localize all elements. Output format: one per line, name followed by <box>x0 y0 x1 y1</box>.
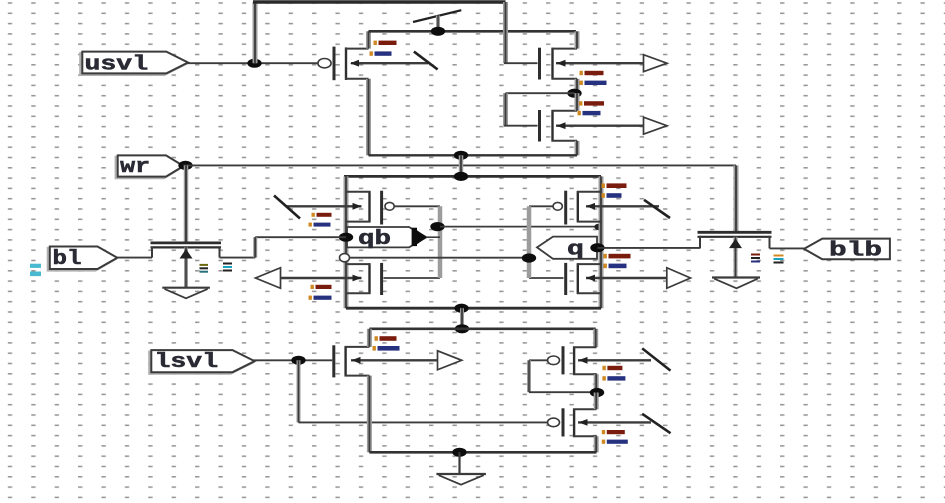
wire rail y176 top of latch <box>344 175 601 178</box>
wire M8 source arm down to rail <box>367 376 372 453</box>
annotation slash at M4 bulk <box>274 196 300 219</box>
svg-text:q: q <box>567 239 584 262</box>
node junction rail y176 <box>454 172 468 181</box>
wire rail y452 bottom of lower block <box>369 451 596 454</box>
ground symbol below MA1 <box>162 288 210 299</box>
value label M10 line2 <box>602 440 628 444</box>
wire wr down to left access gate <box>184 165 189 242</box>
value label M1 line2 <box>370 51 392 55</box>
flag bl bitline pin <box>48 248 116 271</box>
bulk of M5 with arrow and well tap triangle <box>256 268 362 289</box>
value label M10 line1 <box>602 430 625 434</box>
value label M9 line1 <box>602 366 622 370</box>
value label M5 line1 <box>311 285 332 289</box>
wire wr horizontal run <box>184 164 737 166</box>
annotation slash at M1 bulk <box>414 52 438 70</box>
wire M3 drain arm up <box>575 93 580 111</box>
wire mid node to M3 gate column <box>506 92 575 94</box>
wire rail y155 bottom of top block <box>369 154 578 156</box>
value label M3 line2 <box>578 111 601 115</box>
bulk of M7 with arrow and well tap triangle <box>586 268 691 289</box>
wire qb flag tip to gate column <box>427 236 440 238</box>
node junction rail y155 <box>454 151 468 160</box>
node q junction <box>590 243 604 252</box>
wire gate column left inverter input <box>438 206 443 278</box>
transistor MA2 nmos right access (gate from wr) <box>698 232 772 248</box>
value label M7 line1 <box>604 254 631 259</box>
bulk of M10 with arrow <box>578 419 651 426</box>
svg-text:blb: blb <box>829 239 882 262</box>
wire lsvl node down <box>297 360 301 422</box>
wire M10 drain arm from mid node <box>594 393 599 410</box>
wire vertical connecting rails across wr <box>459 155 464 176</box>
wire M9 gate loop to mid node <box>529 360 597 392</box>
value label M4 line1 <box>312 213 332 217</box>
bulk of M8 with arrow and well tap triangle <box>351 351 462 370</box>
node usvl junction <box>247 59 261 68</box>
node lsvl junction <box>291 356 305 365</box>
svg-text:bl: bl <box>53 248 82 271</box>
wire gate column for M3 <box>503 93 508 126</box>
svg-text:wr: wr <box>120 156 150 179</box>
wire lsvl to M10 gate <box>299 421 548 423</box>
transistor M8 nmos lsvl <box>334 345 370 377</box>
wire top vdd rail <box>253 0 506 3</box>
value label M7 line2 <box>604 264 627 269</box>
value label MA2 marks <box>751 254 784 264</box>
wire qb output column left inverter <box>344 176 349 308</box>
wire rail y308 bottom of latch <box>346 307 601 310</box>
transistor M9 pmos upper right of lower block <box>548 346 597 375</box>
svg-text:qb: qb <box>358 228 391 251</box>
svg-text:usvl: usvl <box>85 54 149 77</box>
wire q feedback cross-couple <box>440 226 599 228</box>
wire wr down to right access gate <box>734 165 739 231</box>
node junction between M9 and M10 <box>590 388 604 397</box>
value label M6 line2 <box>602 193 622 198</box>
bulk of M4 with arrow <box>286 203 362 210</box>
value label M9 line2 <box>602 376 625 380</box>
annotation slash at M9 bulk <box>642 348 670 370</box>
value label M5 line2 <box>309 296 332 300</box>
wire vertical usvl node to top rail <box>253 2 258 63</box>
transistor M4 pmos left inverter <box>346 191 440 225</box>
node between M2 and M3 <box>567 89 581 98</box>
value label MA1 marks <box>200 263 233 273</box>
wire bl to access transistor <box>117 257 152 259</box>
wire q output column right inverter <box>599 176 604 308</box>
flag qb export label <box>347 227 427 251</box>
wire q node to right access transistor <box>598 247 701 249</box>
wire vertical latch rail to lower rail <box>460 308 464 329</box>
wire usvl to M1 gate <box>186 62 318 64</box>
value label MA1 cyan left <box>30 264 41 276</box>
flag wr wordline pin <box>116 157 182 178</box>
flag lsvl input pin <box>149 352 252 374</box>
wire M10 source arm down to rail <box>594 436 599 452</box>
wire M2 source arm down <box>575 79 580 93</box>
bulk of M1 with arrow <box>350 60 428 67</box>
transistor M3 nmos lower of pair <box>504 110 577 142</box>
value label M8 line2 <box>373 346 400 351</box>
wire step up to qb row <box>253 237 257 257</box>
wire stub slash to junction <box>436 16 440 32</box>
bulk of M6 with arrow <box>586 203 659 210</box>
node qb junction <box>339 233 353 242</box>
wire M9 drain arm from rail <box>593 329 598 347</box>
node junction rail y329 <box>455 324 469 333</box>
wire rail y329 top of lower block <box>369 327 595 330</box>
bulk of M9 with arrow <box>578 357 651 364</box>
flag usvl input pin <box>80 53 186 75</box>
wire M2 drain arm to rail y31 <box>575 31 580 48</box>
annotation slash at node <box>413 10 461 22</box>
bulk of MA2 down with arrow <box>729 237 742 277</box>
bulk of M2 with arrow and well tap triangle <box>556 55 667 72</box>
value label M3 line1 <box>579 101 604 105</box>
transistor M5 nmos left inverter <box>346 263 440 295</box>
wire M1 drain arm up <box>366 31 371 48</box>
node junction rail y452 <box>452 448 466 457</box>
node qb feedback junction on right gate column <box>522 253 536 262</box>
wire M9 source arm down to mid node <box>594 374 599 392</box>
wire M1 source arm down to rail <box>366 79 371 156</box>
svg-text:lsvl: lsvl <box>155 351 219 374</box>
node junction q feedback on left gate column <box>430 222 444 231</box>
wire MA2 right arm to blb <box>770 247 806 249</box>
bulk of M3 with arrow and well tap triangle <box>556 117 667 134</box>
flag q export label <box>537 237 597 262</box>
node junction rail y308 <box>454 304 468 313</box>
annotation slash at M6 bulk <box>644 200 670 218</box>
transistor M10 pmos lower right of lower block <box>548 408 597 437</box>
ground symbol main gnd <box>436 452 486 484</box>
transistor M1 pmos usvl (gate bubble) <box>318 47 369 81</box>
bulk of MA1 down with arrow <box>180 247 193 287</box>
wire rail y31 <box>369 30 577 33</box>
value label M2 line1 <box>580 71 604 75</box>
value label M4 line2 <box>309 223 331 227</box>
value label M2 line2 <box>580 81 607 85</box>
wire M3 source arm down to rail <box>575 141 580 156</box>
annotation slash at M10 bulk <box>642 414 670 433</box>
transistor MA1 nmos left access (gate from wr) <box>151 243 222 258</box>
transistor M7 nmos right inverter <box>529 263 601 295</box>
wire qb feedback cross-couple <box>350 257 530 259</box>
wire qb node to left access transistor <box>255 236 346 238</box>
wire MA1 right arm toward qb <box>220 257 256 259</box>
wire lsvl to M8 gate <box>253 359 333 361</box>
value label M6 line1 <box>602 183 627 188</box>
transistor M6 pmos right inverter <box>529 191 601 225</box>
value label M1 line1 <box>374 41 397 45</box>
value label M8 line1 <box>375 336 397 341</box>
wire gate column for M2 <box>503 2 508 63</box>
pin circle qb column <box>340 254 350 262</box>
node wr junction <box>178 161 192 170</box>
wire gate column right inverter input <box>527 206 532 278</box>
flag blb bitline-bar pin <box>804 239 890 260</box>
transistor M2 nmos upper-right <box>504 48 577 80</box>
node junction on rail y31 <box>431 27 445 36</box>
wire M8 drain arm up to rail <box>367 329 372 347</box>
ground symbol below MA2 <box>712 278 760 289</box>
